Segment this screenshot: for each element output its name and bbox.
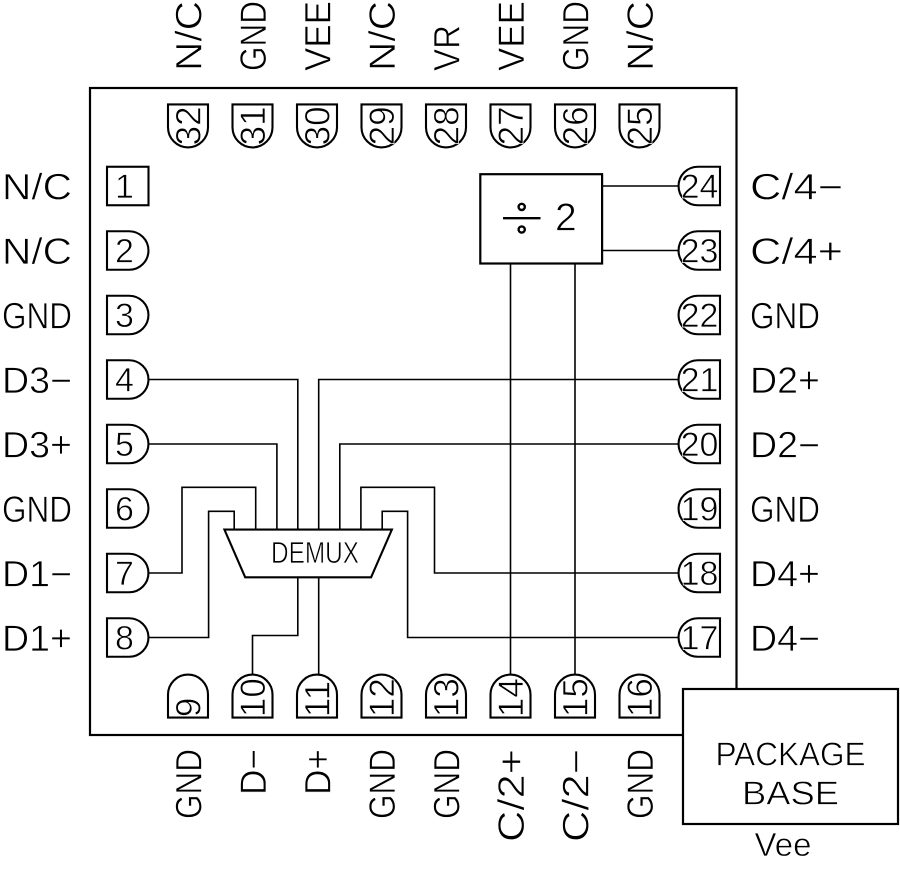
svg-text:23: 23: [681, 233, 719, 271]
svg-text:N/C: N/C: [2, 231, 72, 272]
wire divider to pin24 C/4-: [602, 185, 680, 187]
pin 21: [679, 360, 720, 399]
wire pin4 D3- to DEMUX: [148, 380, 298, 530]
svg-text:19: 19: [681, 491, 719, 529]
divide symbol: [503, 204, 541, 233]
svg-text:D4+: D4+: [750, 554, 820, 595]
divide-by-2 block U1: [480, 174, 602, 263]
svg-text:8: 8: [115, 620, 134, 658]
svg-text:21: 21: [681, 362, 719, 400]
pin 28: [426, 104, 466, 147]
wire pin20 D2- to DEMUX: [340, 444, 680, 530]
svg-text:11: 11: [298, 681, 337, 717]
pin 30: [297, 104, 337, 147]
svg-text:2: 2: [115, 233, 134, 271]
svg-text:GND: GND: [555, 1, 596, 71]
pin 18: [679, 554, 720, 593]
pin 29: [362, 104, 402, 147]
pin 24: [679, 167, 720, 206]
wire pin5 D3+ to DEMUX: [148, 444, 277, 530]
wire divider to pin14 C/2+: [510, 264, 512, 676]
svg-text:GND: GND: [168, 749, 209, 819]
svg-text:18: 18: [681, 555, 719, 593]
package outline: [90, 88, 737, 735]
svg-text:N/C: N/C: [362, 1, 403, 71]
svg-text:22: 22: [681, 297, 719, 335]
svg-text:7: 7: [115, 555, 134, 593]
wire divider to pin23 C/4+: [602, 250, 680, 252]
svg-text:DEMUX: DEMUX: [271, 536, 359, 570]
pin 32: [168, 104, 208, 147]
svg-text:GND: GND: [750, 489, 820, 530]
package base box: [683, 689, 898, 824]
pin 6: [107, 489, 148, 528]
svg-text:5: 5: [115, 426, 134, 464]
svg-text:24: 24: [681, 168, 719, 206]
svg-text:GND: GND: [362, 749, 403, 819]
svg-text:16: 16: [621, 678, 660, 717]
pin 16: [620, 675, 660, 718]
wire pin21 D2+ to DEMUX: [319, 380, 680, 530]
pin 23: [679, 231, 720, 270]
svg-text:13: 13: [427, 678, 466, 717]
svg-text:D+: D+: [297, 749, 338, 795]
svg-text:N/C: N/C: [2, 167, 72, 208]
svg-text:10: 10: [234, 678, 273, 717]
svg-text:GND: GND: [233, 1, 274, 71]
svg-text:C/2−: C/2−: [555, 749, 596, 842]
svg-text:VEE: VEE: [491, 1, 532, 71]
svg-text:28: 28: [427, 106, 466, 145]
pin 11: [297, 675, 337, 718]
svg-text:VR: VR: [426, 25, 467, 71]
pin 17: [679, 618, 720, 657]
svg-text:GND: GND: [2, 296, 72, 337]
pin 10: [233, 675, 273, 718]
svg-text:2: 2: [555, 197, 577, 240]
pin 22: [679, 296, 720, 335]
wire pin10 D- to DEMUX: [253, 577, 298, 675]
pin 12: [362, 675, 402, 718]
svg-text:D3+: D3+: [2, 425, 72, 466]
svg-text:6: 6: [115, 491, 134, 529]
DEMUX block: [224, 530, 392, 578]
svg-text:N/C: N/C: [168, 1, 209, 71]
pin 31: [233, 104, 273, 147]
pin 26: [555, 104, 595, 147]
svg-text:GND: GND: [620, 749, 661, 819]
svg-text:12: 12: [363, 678, 402, 717]
svg-text:14: 14: [492, 678, 531, 717]
svg-text:D2−: D2−: [750, 425, 820, 466]
pin 14: [491, 675, 531, 718]
svg-text:20: 20: [681, 426, 719, 464]
svg-text:9: 9: [169, 698, 208, 717]
svg-text:C/2+: C/2+: [491, 749, 532, 842]
pin 9: [168, 675, 208, 718]
wire DEMUX to pin18 D4+: [361, 487, 680, 573]
svg-text:BASE: BASE: [742, 775, 839, 812]
svg-text:D−: D−: [233, 749, 274, 795]
svg-text:32: 32: [169, 106, 208, 145]
svg-text:29: 29: [363, 106, 402, 145]
svg-text:31: 31: [234, 106, 273, 145]
svg-text:3: 3: [115, 297, 134, 335]
wire DEMUX to pin17 D4-: [382, 511, 679, 637]
svg-text:26: 26: [556, 106, 595, 145]
svg-text:D2+: D2+: [750, 360, 820, 401]
pin 3: [107, 296, 148, 335]
pin 5: [107, 425, 148, 464]
svg-text:C/4−: C/4−: [750, 167, 843, 208]
svg-text:25: 25: [621, 106, 660, 145]
svg-text:D1+: D1+: [2, 618, 72, 659]
svg-text:GND: GND: [2, 489, 72, 530]
pin 27: [491, 104, 531, 147]
svg-text:15: 15: [556, 678, 595, 717]
pin 13: [426, 675, 466, 718]
pin 1: [107, 167, 149, 206]
svg-text:30: 30: [298, 106, 337, 145]
svg-text:4: 4: [115, 362, 134, 400]
svg-text:D4−: D4−: [750, 618, 820, 659]
svg-text:N/C: N/C: [620, 1, 661, 71]
svg-text:D3−: D3−: [2, 360, 72, 401]
wire divider to pin15 C/2-: [574, 264, 576, 676]
svg-text:GND: GND: [426, 749, 467, 819]
pin 25: [620, 104, 660, 147]
svg-text:C/4+: C/4+: [750, 231, 843, 272]
svg-text:27: 27: [492, 106, 531, 145]
svg-text:PACKAGE: PACKAGE: [716, 736, 866, 773]
svg-text:17: 17: [681, 620, 719, 658]
svg-text:Vee: Vee: [755, 826, 812, 863]
pin 15: [555, 675, 595, 718]
pin 4: [107, 360, 148, 399]
svg-text:D1−: D1−: [2, 554, 72, 595]
svg-text:VEE: VEE: [297, 1, 338, 71]
wire pin8 D1+ to DEMUX: [148, 511, 234, 637]
pin 20: [679, 425, 720, 464]
wire pin11 D+ to DEMUX: [318, 577, 320, 675]
pin 7: [107, 554, 148, 593]
svg-text:GND: GND: [750, 296, 820, 337]
svg-text:1: 1: [115, 168, 134, 206]
pin 8: [107, 618, 148, 657]
wire pin7 D1- to DEMUX: [148, 487, 256, 573]
pin 19: [679, 489, 720, 528]
pin 2: [107, 231, 148, 270]
